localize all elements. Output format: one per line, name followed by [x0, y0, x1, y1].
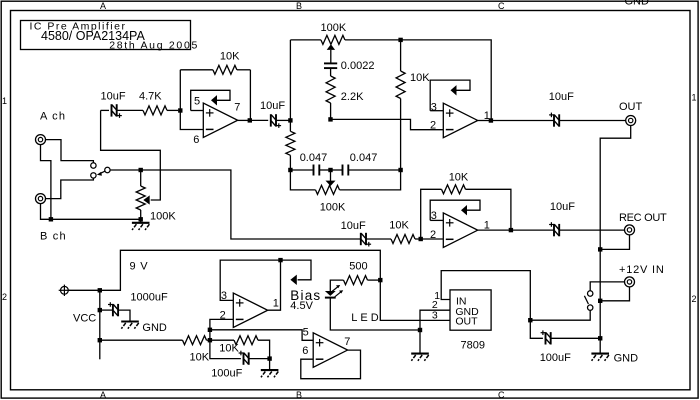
- switch S2 top contact: [588, 291, 593, 296]
- svg-text:1: 1: [273, 297, 279, 309]
- svg-text:10uF: 10uF: [341, 220, 366, 232]
- junction dot 1000uF tap: [98, 308, 102, 312]
- pin label 3 U1b: [431, 102, 437, 114]
- connector +12V IN: [625, 277, 635, 287]
- resistor 10K rec input: [391, 235, 419, 244]
- svg-text:5: 5: [194, 96, 200, 108]
- junction dot bias to spare: [208, 328, 212, 332]
- ground at 7809: [411, 330, 429, 361]
- svg-text:3: 3: [431, 210, 437, 222]
- pin label 5 spare: [303, 326, 309, 338]
- label 10K feedback U1a: [220, 51, 240, 63]
- svg-text:100uF: 100uF: [540, 352, 571, 364]
- frame zone label A bottom: [100, 390, 106, 400]
- junction dot 100K-10K node: [398, 38, 402, 42]
- pin label 3 U2a: [431, 210, 437, 222]
- svg-text:10uF: 10uF: [550, 201, 575, 213]
- label 10K divider left: [190, 352, 210, 364]
- capacitor 1000uF: [100, 302, 130, 321]
- junction dot U2a input node: [419, 237, 423, 241]
- connector A ch jack: [36, 135, 46, 145]
- junction dot 0.047 right: [398, 168, 402, 172]
- wire bias output and feedback: [220, 260, 280, 310]
- frame row label 1 right: [692, 93, 697, 103]
- label Bias: [290, 288, 321, 303]
- label 500: [349, 260, 367, 272]
- frame zone label A top: [100, 1, 106, 11]
- resistor 4.7K: [143, 106, 178, 115]
- junction dot power ground: [598, 336, 602, 340]
- switch S1 blade: [97, 171, 105, 176]
- junction dot divider mid: [208, 338, 212, 342]
- wire +12V sleeve to bus: [600, 287, 629, 301]
- wire divider node to bias inverting input: [210, 319, 233, 340]
- svg-text:2.2K: 2.2K: [341, 91, 364, 103]
- junction dot 100uF top: [528, 318, 532, 322]
- svg-text:7: 7: [344, 336, 350, 348]
- svg-text:10uF: 10uF: [549, 91, 574, 103]
- svg-text:0.047: 0.047: [300, 152, 328, 164]
- title text line 2: [41, 29, 145, 43]
- svg-text:B: B: [296, 1, 302, 11]
- wire 7809 IN from switch: [441, 271, 530, 321]
- label 100K top: [321, 22, 347, 34]
- capacitor 0.0022: [324, 63, 337, 76]
- op-amp U2b spare body: [313, 333, 347, 368]
- label VCC: [73, 313, 96, 325]
- op-amp U1b bias hook: [430, 80, 470, 111]
- svg-text:10uF: 10uF: [260, 100, 285, 112]
- wire switch top to +12V: [590, 282, 625, 291]
- wire VCC bus down: [99, 290, 101, 359]
- resistor 500: [330, 276, 380, 291]
- frame row label 2 right: [692, 294, 697, 304]
- wire node to U2a inverting input: [421, 238, 444, 240]
- svg-text:2: 2: [430, 229, 436, 241]
- svg-text:2: 2: [220, 310, 226, 322]
- svg-text:6: 6: [302, 345, 308, 357]
- resistor 10K feedback U2a: [442, 185, 511, 230]
- junction dot bias cap ground: [267, 356, 271, 360]
- svg-text:500: 500: [349, 260, 367, 272]
- pin label 6 spare: [302, 345, 308, 357]
- svg-text:100uF: 100uF: [211, 367, 242, 379]
- wire 7809 GND pin: [420, 310, 450, 330]
- pin label 7 spare: [344, 336, 350, 348]
- ground at power: [591, 338, 609, 361]
- label 100uF power: [540, 352, 571, 364]
- pin label 6: [193, 134, 199, 146]
- wire REC OUT sleeve: [600, 235, 629, 250]
- svg-text:6: 6: [193, 134, 199, 146]
- potentiometer 100K bottom body: [290, 170, 400, 194]
- svg-text:OUT: OUT: [619, 101, 643, 113]
- label 0.047 right: [350, 152, 378, 164]
- svg-text:100K: 100K: [320, 202, 346, 214]
- op-amp U2a body: [443, 213, 477, 248]
- potentiometer 100K top body: [290, 35, 400, 44]
- capacitor 10uF rec input: [361, 233, 391, 247]
- junction dot divider tap: [98, 338, 102, 342]
- label 10uF output: [549, 91, 574, 103]
- switch S1 bottom contact: [91, 173, 96, 178]
- capacitor 0.047 left: [290, 165, 330, 176]
- label +12V IN: [619, 264, 665, 276]
- svg-text:C: C: [498, 390, 505, 400]
- label 0.047 left: [300, 152, 328, 164]
- svg-text:VCC: VCC: [73, 313, 96, 325]
- label 1000uF: [130, 291, 168, 303]
- op-amp U2a bias hook: [430, 200, 480, 220]
- op-amp U1a bias hook: [191, 90, 230, 110]
- svg-text:10K: 10K: [220, 51, 240, 63]
- wire OUT sleeve to ground bus: [600, 125, 631, 338]
- regulator 7809 box: [450, 290, 491, 330]
- svg-text:GND: GND: [614, 352, 639, 364]
- junction dot U1a output: [248, 118, 252, 122]
- switch S2 blade: [584, 296, 588, 304]
- pin label 1 7809: [434, 290, 440, 302]
- ground at bias divider: [261, 359, 279, 378]
- switch S2 bottom contact: [588, 305, 593, 310]
- switch S1 top contact: [91, 163, 96, 168]
- label 10K divider right: [219, 343, 239, 355]
- capacitor 10uF rec out: [511, 222, 625, 236]
- svg-text:100K: 100K: [321, 22, 347, 34]
- frame row label 1 left: [2, 96, 7, 106]
- label 100K bottom: [320, 202, 346, 214]
- connector REC OUT: [625, 225, 635, 235]
- title text line 3: [109, 40, 199, 52]
- junction dot VCC node: [98, 288, 102, 292]
- svg-text:LED: LED: [351, 312, 381, 324]
- junction dot bias node: [278, 258, 282, 262]
- pin label 3 7809: [432, 310, 438, 322]
- connector OUT: [626, 116, 636, 126]
- label 10uF rec out: [550, 201, 575, 213]
- junction dot rec ring tap: [598, 247, 602, 251]
- label 7809: [461, 339, 485, 351]
- switch S1 pole contact: [105, 167, 110, 172]
- resistor 10K divider right: [210, 336, 270, 359]
- svg-text:1: 1: [692, 93, 697, 103]
- potentiometer 100K bottom wiper: [326, 170, 336, 186]
- svg-text:10K: 10K: [449, 172, 469, 184]
- op-amp U1a body: [203, 103, 237, 138]
- svg-text:A: A: [100, 1, 106, 11]
- label B ch: [40, 231, 67, 243]
- label 0.0022: [341, 60, 375, 72]
- label 10uF interstage: [260, 100, 285, 112]
- capacitor 0.047 right: [331, 165, 401, 176]
- label 4.5V: [290, 300, 313, 312]
- junction dot 7809 ground node: [418, 328, 422, 332]
- label IN: [456, 295, 467, 307]
- junction dot 0.047 middle: [328, 168, 332, 172]
- svg-text:A ch: A ch: [40, 111, 66, 123]
- svg-text:2: 2: [2, 292, 7, 302]
- pin label 7: [234, 102, 240, 114]
- frame zone label B top: [296, 1, 302, 11]
- pin label 2 bias: [220, 310, 226, 322]
- label 4.7K: [139, 91, 162, 103]
- capacitor 10uF interstage: [250, 114, 291, 128]
- bias arrow annotation: [281, 260, 312, 285]
- svg-text:10K: 10K: [190, 352, 210, 364]
- resistor 2.2K: [326, 76, 335, 119]
- junction dot 0.047 left: [288, 168, 292, 172]
- label A ch: [40, 111, 66, 123]
- frame zone label C top: [498, 1, 505, 11]
- junction dot sleeve bus: [49, 217, 53, 221]
- label 10K rec input: [389, 220, 409, 232]
- resistor below interstage cap: [286, 120, 295, 170]
- svg-text:A: A: [100, 390, 106, 400]
- wire U1b output: [478, 120, 491, 122]
- wire A jack to switch top: [45, 140, 93, 163]
- frame zone label C bottom: [498, 390, 505, 400]
- svg-text:2: 2: [692, 294, 697, 304]
- svg-text:B ch: B ch: [40, 231, 67, 243]
- junction dot 2.2K bottom: [328, 117, 332, 121]
- wire U2a feedback riser: [421, 189, 442, 239]
- label 10uF rec input: [341, 220, 366, 232]
- ground at 1000uF: [121, 322, 139, 329]
- wire 2.2K node to U1b inverting input: [331, 119, 444, 129]
- svg-text:OUT: OUT: [455, 316, 478, 328]
- wire feedback right riser: [249, 70, 251, 121]
- junction dot U2a output: [509, 228, 513, 232]
- svg-text:28th Aug 2005: 28th Aug 2005: [109, 40, 199, 52]
- wire U1a output: [238, 119, 250, 121]
- label GND at 1000uF: [142, 322, 167, 334]
- resistor 10K divider left: [100, 336, 210, 345]
- net label GND top right (clipped): [625, 0, 650, 8]
- potentiometer 100K top wiper: [327, 44, 335, 63]
- wire A jack sleeve down: [41, 144, 51, 219]
- op-amp U2 bias buffer body: [233, 293, 267, 328]
- pin label 3 bias: [221, 290, 227, 302]
- label GND power: [614, 352, 639, 364]
- title box: [21, 21, 191, 50]
- pin label 2 U2a: [430, 229, 436, 241]
- svg-text:C: C: [498, 1, 505, 11]
- wire node to B riser to REC line: [141, 170, 361, 239]
- title text line 1: [30, 21, 127, 33]
- label 100K pot: [150, 211, 176, 223]
- svg-text:+12V IN: +12V IN: [619, 264, 665, 276]
- label 9 V: [130, 260, 149, 272]
- junction dot U1b output: [489, 118, 493, 122]
- wire bias node to spare noninverting: [210, 330, 313, 341]
- svg-text:1000uF: 1000uF: [130, 291, 168, 303]
- junction dot 9V node: [378, 278, 382, 282]
- svg-text:3: 3: [431, 102, 437, 114]
- pin label 2 7809: [432, 299, 438, 311]
- pin label 1 U2a: [484, 220, 490, 232]
- svg-text:10K: 10K: [389, 220, 409, 232]
- wire top node to U1b fb riser: [401, 40, 492, 121]
- wire switch to IN node: [530, 310, 590, 320]
- wire node to inverting input: [180, 111, 203, 130]
- wire feedback left riser: [179, 70, 181, 111]
- op-amp U1b body: [443, 103, 477, 138]
- potentiometer VR1 100K body: [136, 170, 145, 219]
- wire pole to node: [110, 169, 141, 171]
- svg-text:10K: 10K: [410, 72, 430, 84]
- pin label 5: [194, 96, 200, 108]
- svg-text:GND: GND: [625, 0, 650, 8]
- label 10uF input: [101, 91, 126, 103]
- label LED: [351, 312, 381, 324]
- resistor 10K middle: [396, 40, 405, 170]
- frame zone label B bottom: [296, 390, 302, 400]
- capacitor 100uF bias: [210, 340, 270, 365]
- svg-text:10uF: 10uF: [101, 91, 126, 103]
- pin label 1 bias: [273, 297, 279, 309]
- connector B ch jack: [36, 194, 46, 204]
- svg-text:B: B: [296, 390, 302, 400]
- ground at input pot: [132, 219, 150, 230]
- capacitor 10uF input: [101, 104, 143, 118]
- capacitor 100uF power: [530, 320, 600, 344]
- frame row label 2 left: [2, 292, 7, 302]
- LED D1: [325, 285, 343, 298]
- label OUT: [619, 101, 643, 113]
- wire B jack to switch bottom: [45, 178, 93, 199]
- svg-text:7: 7: [234, 102, 240, 114]
- wire U2a output: [478, 229, 511, 231]
- capacitor 10uF output: [491, 113, 626, 127]
- resistor 10K feedback U1a: [180, 65, 250, 74]
- svg-text:1: 1: [2, 96, 7, 106]
- label 10K middle: [410, 72, 430, 84]
- label REC OUT: [619, 212, 667, 224]
- svg-text:4.7K: 4.7K: [139, 91, 162, 103]
- connector VCC input: [59, 285, 70, 296]
- svg-text:GND: GND: [142, 322, 167, 334]
- svg-text:0.047: 0.047: [350, 152, 378, 164]
- svg-text:5: 5: [303, 326, 309, 338]
- junction dot pot ground: [139, 217, 143, 221]
- svg-text:REC OUT: REC OUT: [619, 212, 667, 224]
- pin label 2 U1b: [430, 119, 436, 131]
- svg-text:9 V: 9 V: [130, 260, 149, 272]
- label GND inside 7809: [455, 306, 479, 318]
- junction dot 12V ring: [598, 299, 602, 303]
- wire LED cathode to ground node: [330, 298, 420, 330]
- junction dot U1a input node: [178, 108, 182, 112]
- svg-text:7809: 7809: [461, 339, 485, 351]
- label 10K feedback U2a: [449, 172, 469, 184]
- node pole junction dot: [139, 168, 143, 172]
- junction dot tone input node: [288, 118, 292, 122]
- potentiometer VR1 wiper arrow: [101, 110, 161, 204]
- svg-text:10K: 10K: [219, 343, 239, 355]
- svg-text:4.5V: 4.5V: [290, 300, 313, 312]
- wire spare feedback: [301, 350, 361, 379]
- label OUT inside 7809: [455, 316, 478, 328]
- pin label 1 U1b: [484, 110, 490, 122]
- svg-text:2: 2: [430, 119, 436, 131]
- wire B jack sleeve / ground bus: [41, 203, 141, 219]
- svg-text:100K: 100K: [150, 211, 176, 223]
- wire 7809 OUT pin: [380, 280, 450, 320]
- svg-text:0.0022: 0.0022: [341, 60, 375, 72]
- label 2.2K: [341, 91, 364, 103]
- wire riser to 100K top: [289, 40, 291, 121]
- label 100uF bias: [211, 367, 242, 379]
- wire VCC to rail riser: [68, 250, 380, 290]
